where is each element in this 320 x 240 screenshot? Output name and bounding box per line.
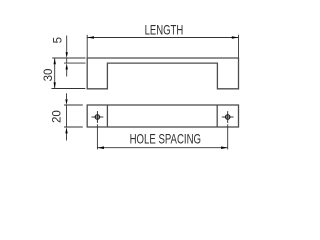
svg-text:LENGTH: LENGTH bbox=[145, 22, 184, 38]
svg-text:20: 20 bbox=[52, 110, 64, 123]
svg-text:30: 30 bbox=[43, 69, 55, 82]
svg-text:HOLE SPACING: HOLE SPACING bbox=[130, 131, 201, 147]
svg-text:5: 5 bbox=[52, 37, 64, 43]
